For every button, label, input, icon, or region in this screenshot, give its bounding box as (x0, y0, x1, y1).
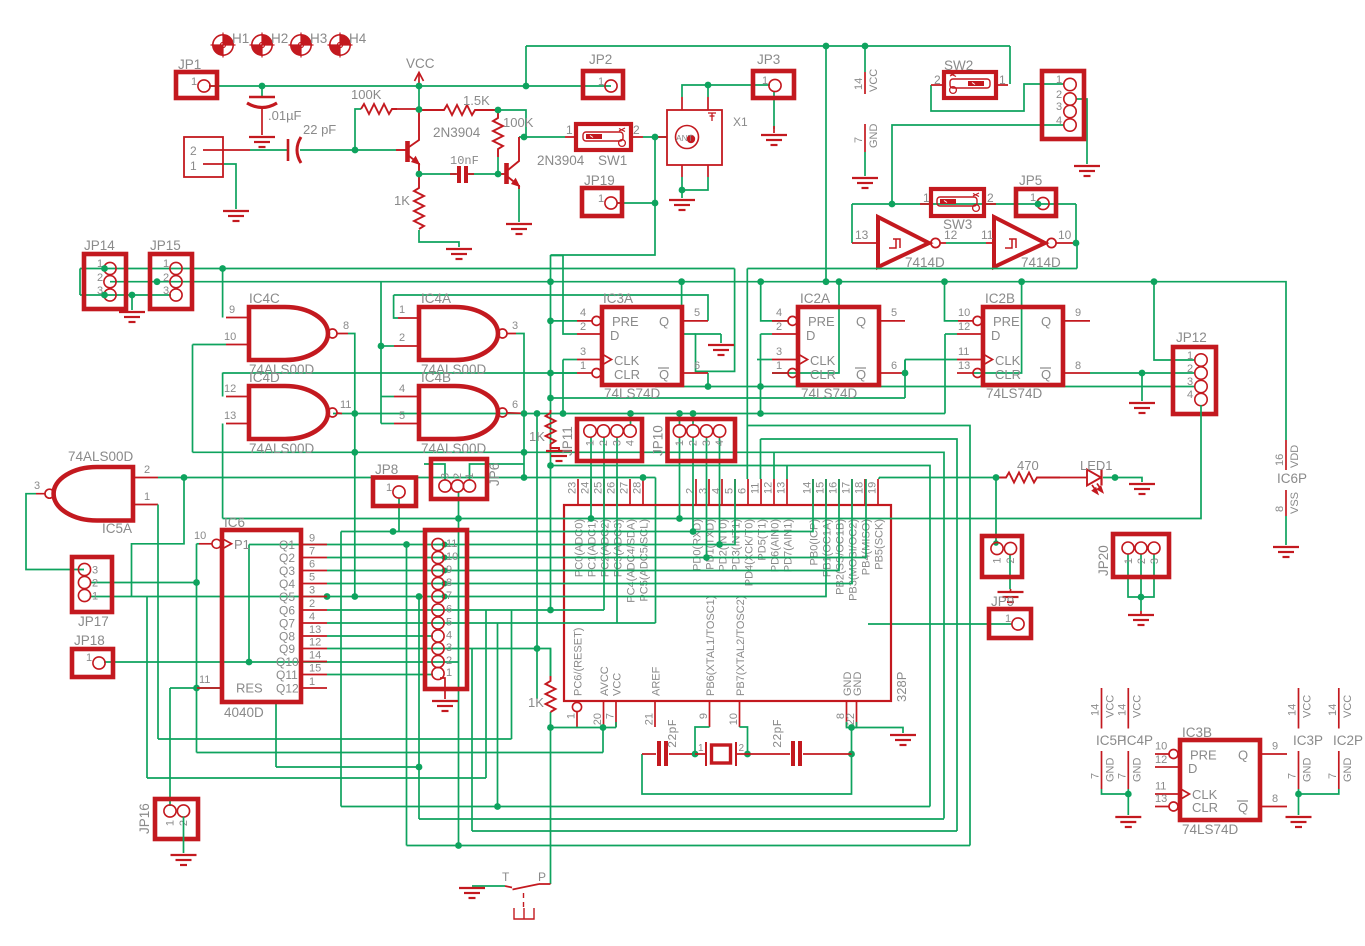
svg-text:1: 1 (92, 591, 98, 603)
wire row 596.5 JP17-Q5 to PB1 (90, 479, 826, 597)
svg-text:2: 2 (739, 743, 745, 754)
wire JP10 pin4 drop (719, 437, 721, 545)
wire IC1P VCC pin to top row (864, 46, 866, 72)
svg-text:GND: GND (1302, 758, 1314, 783)
wire 1.5K right to Q2 collector riser (498, 110, 526, 137)
svg-text:3: 3 (446, 642, 452, 654)
svg-text:2: 2 (399, 332, 405, 344)
svg-text:18: 18 (854, 482, 866, 494)
svg-text:8: 8 (1272, 793, 1278, 805)
svg-text:16: 16 (828, 482, 840, 494)
wire VCC row y=86 from JP1 to JP2 (209, 85, 611, 87)
svg-text:CLR: CLR (1192, 800, 1218, 815)
svg-text:19: 19 (867, 482, 879, 494)
wire row 610 (327, 609, 604, 611)
wire row 373 west segment (223, 372, 577, 374)
svg-text:VCC: VCC (1105, 695, 1117, 718)
svg-text:PD5(T1): PD5(T1) (757, 519, 769, 561)
svg-text:JP8: JP8 (375, 462, 398, 477)
microcontroller U1 328P body (564, 505, 891, 701)
wire SW2 pin2 loop to JP4 pin1 (931, 84, 1064, 111)
wire .01uF cap drop (261, 86, 263, 96)
wire row 583.5 Q4 to PB3 (327, 479, 852, 584)
wire v222 JP14 net to IC4C pin9 (222, 269, 224, 318)
svg-text:10: 10 (446, 551, 458, 563)
connector X2 pin lines (203, 150, 250, 164)
wire X1 top pin2 riser (707, 85, 709, 97)
wire IC2B PRE riser x=944.5 (945, 282, 959, 321)
svg-text:74LS74D: 74LS74D (801, 386, 858, 401)
wire JP6 pin1 link (470, 464, 525, 481)
svg-text:11: 11 (199, 674, 210, 686)
wire JP9 row 624 (868, 623, 1012, 625)
svg-text:1: 1 (309, 676, 315, 688)
svg-text:VDD: VDD (1289, 445, 1301, 468)
svg-text:JP5: JP5 (1019, 173, 1042, 188)
wire JP13 pin2 to ground (1009, 554, 1011, 589)
svg-text:Q: Q (856, 314, 866, 329)
svg-text:4: 4 (1187, 389, 1193, 401)
connector JP11 (560, 419, 642, 461)
svg-text:74ALS00D: 74ALS00D (421, 441, 487, 456)
wire IC4B in4 stub (381, 396, 394, 398)
wire long bus row y=281.7 (110, 282, 1286, 440)
svg-text:11: 11 (1155, 781, 1166, 793)
svg-text:100K: 100K (503, 115, 534, 130)
wire IC2A CLK west stub (757, 359, 772, 361)
resistor R7 1K reset pullup (546, 676, 556, 712)
wire Q1 1K bottom to ground (419, 230, 459, 247)
svg-text:9: 9 (229, 304, 235, 316)
svg-text:4: 4 (1056, 115, 1062, 127)
wire P1 stub link (197, 543, 200, 545)
svg-text:11: 11 (958, 346, 969, 358)
wire IC2B Qbar row to JP12 pin2 (1090, 372, 1195, 374)
svg-text:3: 3 (698, 488, 710, 494)
svg-text:3: 3 (612, 440, 624, 446)
svg-text:H4: H4 (349, 31, 367, 46)
connector JP17 (72, 557, 112, 629)
mounting hole H1 (211, 33, 236, 58)
svg-text:2: 2 (97, 272, 103, 284)
svg-text:VCC: VCC (612, 673, 624, 696)
resistor R5 1K pullup at x=550 (546, 410, 560, 450)
wire IC2A CLR riser x=839 (772, 282, 839, 373)
svg-text:VCC: VCC (1342, 695, 1354, 718)
svg-text:JP19: JP19 (584, 173, 615, 188)
svg-text:2: 2 (1187, 363, 1193, 375)
wire SW1 pin2 to X1 (643, 136, 667, 138)
wire 10nF to Q2 base node (469, 173, 498, 175)
svg-text:14: 14 (1327, 704, 1339, 716)
svg-text:15: 15 (815, 482, 827, 494)
wire IC2B D stub (945, 333, 957, 335)
svg-text:JP16: JP16 (137, 803, 152, 834)
wire row 452.3 (193, 452, 945, 818)
svg-text:GND: GND (868, 124, 880, 149)
wire column x=472 (471, 649, 473, 832)
svg-text:2: 2 (446, 655, 452, 667)
wire row478 drop to row 623 (655, 478, 657, 624)
svg-text:2: 2 (598, 440, 610, 446)
svg-text:1: 1 (399, 304, 405, 316)
svg-text:Q4: Q4 (279, 577, 295, 591)
nand gate IC4A 74ALS00D (394, 291, 518, 377)
svg-text:JP20: JP20 (1096, 545, 1111, 576)
svg-text:P: P (538, 870, 546, 884)
wire 22pF to Q1 base (300, 149, 396, 151)
svg-text:10: 10 (958, 307, 970, 319)
nand gate IC5A 74ALS00D mirrored (34, 449, 158, 536)
wire v537 column (536, 414, 538, 700)
svg-text:8: 8 (446, 577, 452, 589)
svg-text:4: 4 (580, 307, 586, 319)
wire IC2A CLK row (905, 359, 957, 361)
svg-text:1: 1 (566, 713, 578, 719)
connector JP8 (373, 462, 416, 506)
connector JP6 (431, 459, 502, 499)
wire JP6 pin2/header pin2 column (458, 492, 460, 846)
wire IC2A Q6 node drop (904, 360, 906, 374)
svg-text:1: 1 (1123, 558, 1135, 564)
wire AVCC riser x=603 (602, 728, 604, 753)
svg-text:14: 14 (802, 482, 814, 494)
wire bottom row 767 (276, 766, 419, 768)
svg-text:GND: GND (852, 672, 864, 697)
svg-text:JP12: JP12 (1176, 330, 1207, 345)
wire v550 column (550, 255, 552, 610)
connector JP19 (582, 173, 622, 216)
wire JP11 pin1/PC1 column (590, 437, 592, 519)
ground under R3 (446, 249, 472, 259)
resistor R1 100K zigzag (361, 104, 397, 114)
svg-text:1: 1 (598, 76, 604, 88)
wire JP10 pin1 riser (679, 414, 681, 426)
capacitor C4 22pF left (642, 741, 692, 766)
wire IC2A PRE riser x=760.7 (761, 282, 788, 321)
wire JP19 pin stub (617, 202, 622, 204)
svg-text:3: 3 (309, 585, 315, 597)
svg-text:Q3: Q3 (279, 564, 295, 578)
power pin IC3P GND 7 (1287, 751, 1314, 789)
wire bottom row 739 (158, 738, 512, 740)
svg-text:3: 3 (776, 346, 782, 358)
svg-text:1: 1 (1005, 613, 1011, 625)
svg-text:7: 7 (605, 713, 617, 719)
wire JP11 pin4 riser (630, 414, 632, 426)
svg-text:PD7(AIN1): PD7(AIN1) (783, 519, 795, 572)
svg-text:11: 11 (340, 399, 351, 411)
power pin IC1P GND 7 (853, 124, 880, 153)
IC6 output pin stubs Q1-Q12 (301, 545, 327, 689)
svg-text:IC3B: IC3B (1182, 725, 1212, 740)
ground below JP12 pin2 net (1129, 403, 1155, 413)
switch SW2 (931, 58, 1008, 98)
ground under JP14 (119, 312, 145, 322)
wire riser x=526 joining rows 46/86 (525, 46, 527, 86)
wire Q1 emitter node row y=174 (419, 173, 456, 175)
svg-text:12: 12 (224, 383, 236, 395)
svg-text:3: 3 (1056, 101, 1062, 113)
svg-text:1: 1 (446, 667, 452, 679)
svg-text:CLR: CLR (995, 367, 1021, 382)
svg-text:328P: 328P (894, 672, 909, 702)
svg-text:1: 1 (923, 191, 930, 205)
switch SW1 (566, 123, 640, 168)
svg-text:3: 3 (580, 346, 586, 358)
connector JP13 2-pin (982, 536, 1022, 577)
wire bottom row 819 (419, 818, 944, 820)
svg-text:100K: 100K (351, 87, 382, 102)
wire column x=511.5 (511, 610, 513, 739)
wire IC4A in2 stub (381, 345, 394, 347)
wire VCC drop to 100K/1.5K node (418, 86, 420, 110)
power pin IC5P GND 7 (1090, 751, 1117, 789)
power symbol VCC (406, 56, 435, 86)
svg-text:6: 6 (446, 604, 452, 616)
svg-text:22pF: 22pF (771, 719, 785, 748)
wire IC1P GND pin to ground (864, 152, 866, 176)
svg-text:IC5A: IC5A (102, 521, 132, 536)
svg-text:15: 15 (309, 663, 321, 675)
svg-text:17: 17 (841, 482, 853, 494)
wire conn pin1 to ground (223, 164, 236, 209)
connector JP18 (72, 633, 113, 677)
svg-text:1: 1 (1056, 74, 1062, 86)
svg-text:8: 8 (1274, 506, 1286, 512)
svg-text:PB6(XTAL1/TOSC1): PB6(XTAL1/TOSC1) (705, 596, 717, 696)
svg-text:3: 3 (1187, 376, 1193, 388)
svg-text:10: 10 (1058, 228, 1072, 242)
svg-text:4: 4 (714, 440, 726, 446)
svg-text:20: 20 (592, 713, 604, 725)
wire IC4D pin13 drop to row518 (222, 424, 224, 519)
wire IC3A PRE stub (551, 320, 578, 322)
svg-text:2: 2 (1056, 89, 1062, 101)
svg-text:1: 1 (1187, 350, 1193, 362)
wire 1K pullup link from v537 (537, 649, 551, 680)
svg-text:7: 7 (1116, 773, 1128, 779)
wire column x=276 under IC6 (275, 702, 277, 767)
svg-text:12: 12 (944, 228, 958, 242)
wire row 544.5 P1/Q1 to PD3 (249, 479, 735, 545)
svg-text:ANT: ANT (676, 133, 693, 143)
svg-text:22 pF: 22 pF (303, 122, 336, 137)
capacitor C2 22pF curved plate (297, 137, 301, 163)
flipflop IC2A 74LS74D (772, 291, 905, 401)
svg-text:X1: X1 (733, 115, 748, 129)
svg-text:IC2A: IC2A (800, 291, 830, 306)
wire Q2 emitter to ground (518, 188, 520, 222)
connector JP10 (651, 419, 736, 461)
svg-text:1: 1 (464, 473, 476, 479)
svg-text:1: 1 (191, 76, 197, 88)
ground right of IC3A (708, 345, 734, 355)
svg-text:JP3: JP3 (757, 52, 780, 67)
wire VCC pin bend (615, 722, 617, 728)
svg-text:Q: Q (659, 314, 669, 329)
wire IC2A D stub (761, 333, 773, 335)
svg-text:5: 5 (446, 617, 452, 629)
wire JP6 pin3 link (424, 464, 445, 481)
svg-text:JP6: JP6 (487, 463, 502, 486)
wire row 465.5 (551, 466, 930, 807)
svg-text:PC1(ADC1): PC1(ADC1) (587, 519, 599, 577)
svg-text:4: 4 (309, 611, 315, 623)
wire row 674.5 (327, 674, 433, 676)
svg-text:GND: GND (1342, 758, 1354, 783)
svg-text:JP14: JP14 (84, 238, 115, 253)
wire bottom row 831 (472, 830, 957, 832)
capacitor C1 .01uF top plate (249, 96, 275, 98)
wire LED cathode to ground (1103, 478, 1142, 483)
svg-text:D: D (1188, 761, 1197, 776)
wire IC4C out to column x=354.8 (348, 334, 355, 597)
svg-text:26: 26 (606, 482, 618, 494)
wire IC3A Qbar drop to row 386 (707, 373, 709, 387)
switch S1 reset T/P (505, 884, 551, 919)
svg-text:JP9: JP9 (991, 594, 1014, 609)
svg-text:PRE: PRE (612, 314, 639, 329)
svg-text:13: 13 (776, 482, 788, 494)
svg-text:9: 9 (1272, 741, 1278, 753)
wire column x=147 (146, 597, 148, 779)
wire bottom row 752.5 (197, 752, 604, 754)
wire IC2B D feeder x=945 (944, 334, 946, 414)
wire IC3A CLR stub (551, 372, 578, 374)
antenna module X1 (667, 110, 722, 165)
svg-text:JP10: JP10 (651, 425, 666, 456)
svg-text:3: 3 (512, 320, 518, 332)
wire JP14 ground stem (131, 295, 133, 310)
wire row 268 west drop JP14 (79, 269, 81, 296)
connector JP9 (989, 594, 1031, 638)
svg-text:1.5K: 1.5K (463, 93, 490, 108)
wire JP10 pin1 drop (679, 437, 681, 519)
wire top VCC row y=46 (526, 45, 1010, 47)
svg-text:PB7(XTAL2/TOSC2): PB7(XTAL2/TOSC2) (735, 596, 747, 696)
capacitor C2 22pF straight plate (287, 139, 290, 161)
wire SW2 pin1 riser from top row (1009, 46, 1011, 84)
svg-text:PB0(ICP): PB0(ICP) (809, 519, 821, 565)
svg-text:14: 14 (309, 650, 321, 662)
flipflop IC2B 74LS74D (957, 291, 1090, 401)
mounting hole H2 (250, 33, 275, 58)
svg-text:2: 2 (934, 73, 941, 87)
svg-text:5: 5 (399, 410, 405, 422)
wire SW3/JP5 row y=204 (852, 203, 1076, 205)
svg-text:CLK: CLK (810, 353, 836, 368)
power pin IC3P VCC 14 (1287, 688, 1314, 729)
wire JP10 pin3 drop (706, 437, 708, 558)
wire X1 bottom pins to ground (681, 177, 683, 198)
svg-text:13: 13 (309, 624, 321, 636)
wire row 478 east LED segment (879, 477, 996, 479)
ground under Q2 emitter (506, 224, 532, 234)
wires gate section (26, 282, 1154, 739)
wire row 425.5 (747, 426, 970, 846)
U1 bottom pin stubs (577, 701, 857, 727)
junction dots middle/bottom (101, 265, 1157, 849)
wire JP8 pin drop (398, 498, 400, 532)
svg-text:Q12: Q12 (276, 682, 299, 696)
svg-text:2N3904: 2N3904 (537, 153, 585, 168)
svg-text:D: D (610, 328, 619, 343)
wire XTAL2 net (740, 727, 748, 754)
wire inverter2 output row down to row 268 (1076, 243, 1078, 269)
svg-text:VCC: VCC (406, 56, 435, 71)
wire 100K left leg (355, 109, 361, 150)
wire PD5 riser (760, 439, 762, 479)
svg-text:22pF: 22pF (666, 719, 680, 748)
wire IC3A CLK feeder (563, 359, 577, 361)
ground right of LED1 (1129, 484, 1155, 494)
wire IC4A pin1 drop (394, 295, 398, 318)
svg-text:Q5: Q5 (279, 590, 295, 604)
svg-text:T: T (502, 870, 510, 884)
svg-text:4: 4 (399, 383, 405, 395)
svg-text:1K: 1K (394, 193, 410, 208)
svg-text:1: 1 (992, 558, 1004, 564)
wire bottom row 806.5 (341, 806, 930, 808)
wire SW1/X1 node down to row 255 (551, 137, 656, 255)
svg-text:1: 1 (580, 360, 586, 372)
wire row 557.5 Q2 to PB4 (327, 479, 866, 558)
wire IC4C in10 feeder (193, 344, 227, 346)
connector JP15 (150, 238, 192, 309)
svg-text:2: 2 (776, 321, 782, 333)
svg-text:1: 1 (190, 159, 197, 173)
svg-text:10: 10 (1155, 741, 1167, 753)
wire 470 node drop to JP13 pin1 (995, 478, 997, 544)
connector X2 2-pin box (184, 137, 223, 177)
svg-text:74LS74D: 74LS74D (986, 386, 1043, 401)
svg-text:14: 14 (1090, 704, 1102, 716)
wire IC3A D feeder x=563 (563, 256, 577, 335)
power pin IC2P VCC 14 (1327, 688, 1354, 729)
nand gate IC4B 74ALS00D (394, 370, 524, 456)
svg-text:14: 14 (1116, 704, 1128, 716)
svg-text:PB3(MOSI/OC2): PB3(MOSI/OC2) (848, 519, 860, 601)
svg-text:PC3(ADC3): PC3(ADC3) (613, 519, 625, 577)
wire XTAL1 net (695, 727, 710, 754)
svg-text:25: 25 (593, 482, 605, 494)
svg-text:IC4B: IC4B (421, 370, 451, 385)
resistor R4 100K vertical (493, 110, 503, 157)
svg-text:1: 1 (566, 123, 573, 137)
svg-text:2: 2 (688, 440, 700, 446)
wire IC2A Qbar link x=905 (904, 360, 906, 399)
svg-text:4: 4 (446, 630, 452, 642)
wire SW3 row down to inverter input 13 (851, 204, 853, 243)
svg-text:1: 1 (144, 491, 150, 503)
ground under R5 (546, 451, 572, 461)
ground under JP16 (171, 855, 197, 865)
nand gate IC4C 74ALS00D (224, 291, 349, 377)
wire PB5 riser (878, 478, 880, 480)
wire column x=341 (340, 532, 342, 807)
svg-text:Q: Q (1041, 367, 1051, 382)
svg-text:6: 6 (737, 488, 749, 494)
svg-text:1: 1 (163, 258, 169, 270)
svg-text:P1: P1 (234, 537, 250, 552)
switch SW3 (920, 189, 996, 232)
svg-text:10: 10 (728, 713, 740, 725)
inverter IC1F 7414D first (852, 217, 946, 267)
power pin IC6P VSS 8 (1274, 490, 1301, 545)
svg-text:3: 3 (34, 480, 40, 492)
ground under JP20 (1140, 611, 1142, 615)
